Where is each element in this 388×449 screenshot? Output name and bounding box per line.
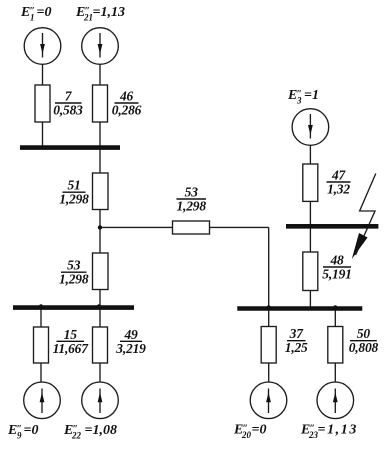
svg-text:48: 48 — [329, 253, 344, 268]
svg-text:1,298: 1,298 — [59, 272, 89, 287]
svg-text:15: 15 — [64, 327, 78, 342]
svg-text:1,298: 1,298 — [59, 192, 89, 207]
svg-text:37: 37 — [289, 326, 305, 341]
svg-text:51: 51 — [67, 178, 80, 193]
svg-text:46: 46 — [119, 89, 134, 104]
svg-text:3,219: 3,219 — [115, 341, 146, 356]
svg-text:53: 53 — [185, 185, 199, 200]
svg-text:1,32: 1,32 — [327, 182, 350, 197]
svg-text:11,667: 11,667 — [53, 341, 90, 356]
svg-text:0,808: 0,808 — [349, 340, 379, 355]
svg-text:53: 53 — [67, 258, 81, 273]
svg-text:E″23=1,13: E″23=1,13 — [300, 423, 358, 441]
svg-text:49: 49 — [123, 327, 138, 342]
svg-text:50: 50 — [357, 326, 371, 341]
svg-text:0,286: 0,286 — [112, 103, 142, 118]
svg-text:1,25: 1,25 — [285, 340, 308, 355]
svg-text:E″21=1,13: E″21=1,13 — [75, 5, 125, 23]
svg-text:5,191: 5,191 — [322, 267, 351, 282]
svg-text:E″9=0: E″9=0 — [7, 423, 38, 441]
svg-text:0,583: 0,583 — [53, 103, 83, 118]
svg-text:E″1=0: E″1=0 — [20, 5, 51, 23]
svg-text:E″22=1,08: E″22=1,08 — [63, 423, 117, 441]
svg-text:1,298: 1,298 — [177, 199, 207, 214]
svg-text:47: 47 — [331, 168, 347, 183]
